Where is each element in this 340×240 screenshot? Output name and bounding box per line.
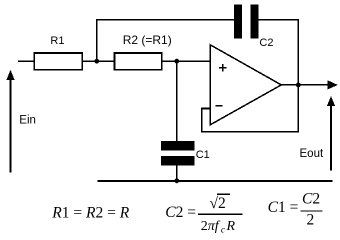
wire C1 to ground rail <box>176 166 178 181</box>
svg-text:R: R <box>226 219 236 234</box>
node junction C (C1/ground rail) <box>174 178 179 183</box>
svg-text:C2 =: C2 = <box>165 204 196 221</box>
wire feedback vertical left <box>96 20 98 61</box>
svg-text:C2: C2 <box>259 37 273 49</box>
svg-text:√2: √2 <box>210 195 226 212</box>
wire R1 to R2 <box>82 60 114 62</box>
wire C2 to output branch <box>258 19 299 21</box>
op-amp U1 <box>210 45 281 125</box>
op-amp plus input symbol <box>219 64 227 72</box>
svg-text:2: 2 <box>307 211 315 228</box>
wire feedback top to C2 <box>96 19 234 21</box>
capacitor C2 <box>234 5 258 39</box>
node junction A (R1/R2/feedback) <box>94 59 99 64</box>
Ein indicator arrow <box>6 70 14 173</box>
node output junction <box>296 83 301 88</box>
wire feedback minus input <box>202 109 299 132</box>
svg-text:Eout: Eout <box>300 148 324 160</box>
capacitor C1 <box>161 141 195 166</box>
wire ground rail <box>98 180 333 182</box>
wire C1 branch vertical <box>176 61 178 141</box>
svg-text:Ein: Ein <box>19 115 36 127</box>
equation C2 numerator sqrt 2 <box>210 194 231 212</box>
wire output <box>281 84 328 86</box>
equation C2 fraction bar <box>198 213 242 215</box>
wire R2 to op-amp <box>162 60 211 62</box>
resistor R1 <box>34 53 82 70</box>
output arrowhead <box>327 80 338 89</box>
equation C2 denominator 2 pi fc R <box>201 219 236 236</box>
svg-text:C2: C2 <box>302 191 320 208</box>
svg-text:C1: C1 <box>196 149 210 161</box>
svg-text:R1 = R2 = R: R1 = R2 = R <box>51 205 129 222</box>
svg-text:C1 =: C1 = <box>268 199 299 216</box>
Eout indicator arrow <box>327 96 335 171</box>
svg-text:2πf: 2πf <box>201 219 221 234</box>
wire input left <box>18 60 34 62</box>
op-amp minus input symbol <box>215 105 222 107</box>
node junction B (R2/C1/op-amp) <box>174 59 179 64</box>
equation C1 fraction bar <box>300 210 322 212</box>
wire output vertical (C2/output/feedback) <box>297 20 299 132</box>
resistor R2 <box>114 53 161 70</box>
svg-text:R1: R1 <box>50 35 64 47</box>
svg-text:R2 (=R1): R2 (=R1) <box>123 33 172 47</box>
